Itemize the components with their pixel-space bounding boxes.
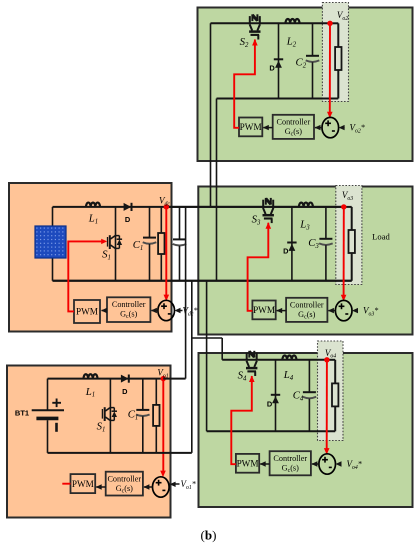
svg-text:D: D [283, 247, 289, 256]
svg-text:D: D [267, 400, 273, 409]
svg-text:Gc(s): Gc(s) [285, 127, 302, 138]
svg-text:Controller: Controller [277, 118, 311, 127]
svg-text:PWM: PWM [76, 307, 98, 317]
svg-text:Controller: Controller [290, 301, 324, 310]
svg-text:Gc(s): Gc(s) [116, 484, 133, 495]
svg-text:Gc(s): Gc(s) [120, 310, 137, 321]
svg-text:Load: Load [372, 232, 390, 242]
svg-text:Controller: Controller [273, 454, 307, 463]
svg-text:Gc(s): Gc(s) [282, 464, 299, 475]
svg-text:D: D [269, 64, 275, 73]
svg-text:PWM: PWM [237, 459, 259, 469]
svg-text:(b): (b) [201, 528, 217, 543]
svg-text:PWM: PWM [72, 479, 94, 489]
svg-text:D: D [122, 387, 128, 396]
svg-text:D: D [125, 215, 131, 224]
svg-text:Gc(s): Gc(s) [298, 310, 315, 321]
svg-text:Controller: Controller [112, 300, 146, 309]
svg-text:PWM: PWM [253, 305, 275, 315]
svg-text:Controller: Controller [107, 475, 141, 484]
svg-text:BT1: BT1 [15, 409, 29, 418]
svg-text:PWM: PWM [240, 122, 262, 132]
